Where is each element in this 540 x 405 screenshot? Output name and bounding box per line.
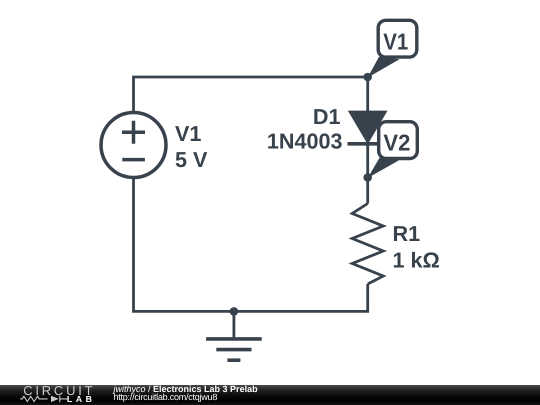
svg-text:V2: V2	[383, 129, 410, 155]
svg-text:5 V: 5 V	[175, 147, 208, 172]
wire left lower: source bottom to corner	[132, 178, 135, 311]
wire right lower: resistor to bottom	[366, 284, 369, 311]
label V1 5 V	[175, 121, 208, 172]
probe flag V2	[368, 122, 418, 178]
svg-text:D1: D1	[313, 104, 341, 129]
ground	[206, 311, 262, 360]
label D1 1N4003	[267, 104, 343, 153]
wire right upper: node V1 through diode to resistor	[366, 77, 369, 204]
svg-text:R1: R1	[393, 221, 421, 246]
footer bar	[0, 385, 540, 405]
svg-text:1N4003: 1N4003	[267, 128, 343, 153]
CircuitLab logo	[17, 384, 117, 405]
probe flag V1	[368, 20, 417, 77]
node junction dot at V1	[363, 73, 372, 82]
voltage source V1	[101, 113, 166, 178]
diode D1	[348, 111, 388, 144]
label R1 1 kΩ	[393, 221, 440, 272]
svg-text:LAB: LAB	[67, 395, 96, 405]
footer text	[114, 384, 258, 394]
svg-text:V1: V1	[383, 29, 408, 55]
node junction dot at V2	[363, 173, 372, 182]
svg-text:V1: V1	[175, 121, 201, 146]
wire bottom	[132, 310, 369, 313]
svg-text:1 kΩ: 1 kΩ	[393, 247, 440, 272]
wire top: source top to node V1	[134, 77, 368, 112]
resistor R1	[352, 204, 383, 285]
node junction dot at ground	[230, 307, 239, 316]
